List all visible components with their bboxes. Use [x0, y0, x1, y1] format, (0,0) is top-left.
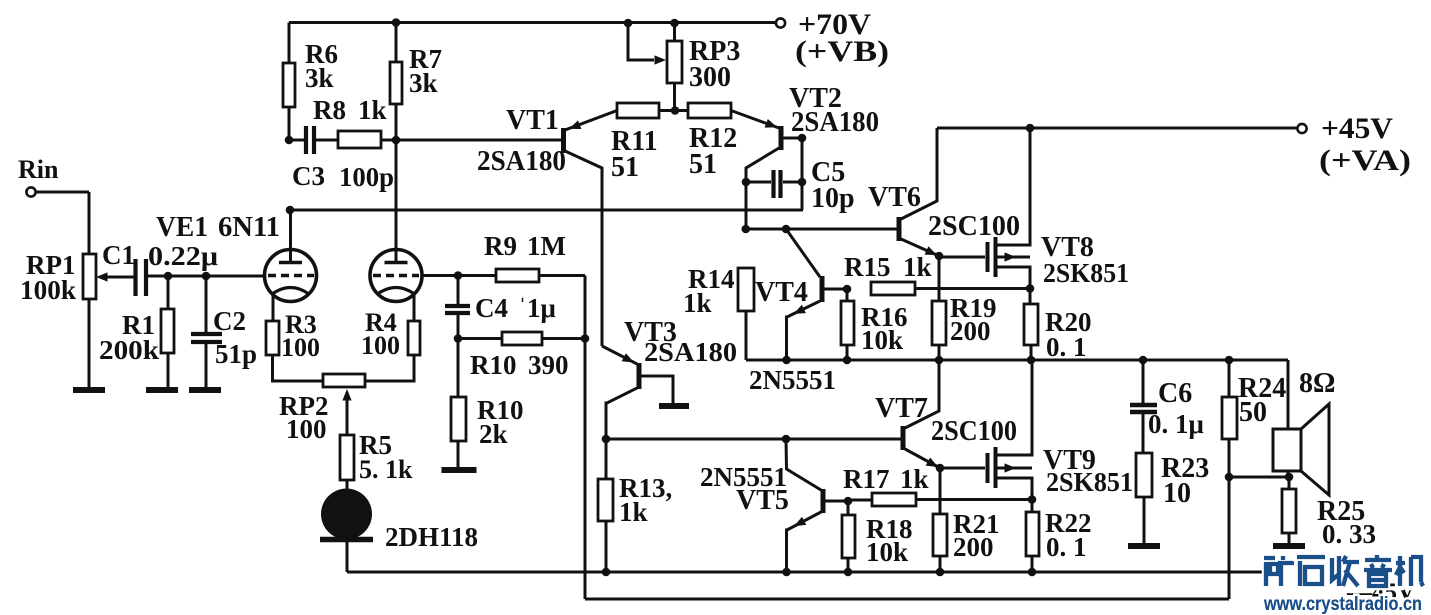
svg-text:2SA180: 2SA180 — [644, 337, 737, 367]
svg-text:3k: 3k — [409, 68, 438, 98]
svg-text:2DH118: 2DH118 — [385, 522, 478, 552]
transistor VT2 2SA180 — [731, 83, 879, 229]
node C5 right — [798, 178, 807, 187]
ground R10 2k — [442, 467, 477, 473]
resistor R20 0.1 — [1024, 289, 1092, 363]
resistor R23 10 — [1136, 453, 1209, 544]
wire VT1 base line — [396, 139, 561, 142]
svg-text:0.22μ: 0.22μ — [148, 241, 218, 271]
node VT2 collector to base-line junction — [742, 225, 751, 234]
node C3 left — [285, 136, 294, 145]
resistor R16 10k — [841, 289, 908, 360]
transistor VT5 2N5551 — [700, 439, 848, 572]
node C4 bottom — [454, 334, 463, 343]
resistor R25 0.33 — [1282, 477, 1376, 549]
triode VE1a (left half 6N11) — [265, 250, 317, 302]
svg-text:2SK851: 2SK851 — [1043, 258, 1129, 288]
svg-text:2SC100: 2SC100 — [931, 416, 1017, 447]
wire 2DH118 to negative rail — [346, 541, 349, 572]
capacitor C1 0.22u — [102, 240, 218, 296]
capacitor C2 51p — [191, 276, 257, 388]
svg-text:100: 100 — [281, 333, 320, 362]
resistor R3 100 — [266, 310, 320, 362]
wire feedback bottom rail — [585, 598, 1229, 601]
svg-text:100k: 100k — [20, 275, 76, 305]
triode VE1b (right half 6N11) — [370, 250, 422, 302]
wire feedback column from R9/R10 — [584, 276, 587, 600]
resistor R19 200 — [932, 256, 997, 360]
wire top rail +70V — [289, 21, 776, 24]
watermark logo text — [1264, 555, 1423, 586]
svg-text:(+VA): (+VA) — [1319, 144, 1411, 177]
transistor VT7 2SC100 — [875, 360, 1017, 468]
wire plate VE1a up — [289, 210, 292, 262]
svg-text:200k: 200k — [99, 335, 159, 365]
svg-text:VE1: VE1 — [156, 212, 208, 243]
wire RP1 to ground — [88, 299, 91, 388]
node VT5 emitter on negative rail — [782, 568, 791, 577]
svg-text:C4: C4 — [475, 293, 508, 323]
svg-text:100: 100 — [361, 331, 400, 360]
svg-text:1k: 1k — [619, 497, 648, 527]
node VT6 emitter — [935, 252, 944, 261]
svg-text:VT4: VT4 — [755, 277, 808, 308]
diode 2DH118 — [320, 489, 478, 553]
node R13 bottom on negative rail — [602, 568, 611, 577]
node R1 top — [164, 272, 173, 281]
wire cathode VE1b down — [413, 294, 416, 321]
node VT2 base lead — [798, 134, 807, 143]
mosfet VT9 2SK851 — [940, 360, 1133, 500]
node R24 top — [1225, 356, 1234, 365]
transistor VT3 2SA180 — [602, 317, 737, 439]
svg-text:51: 51 — [611, 152, 639, 183]
svg-text:1k: 1k — [358, 95, 387, 125]
transistor VT4 2N5551 — [749, 229, 847, 395]
svg-text:ˈ1μ: ˈ1μ — [518, 293, 556, 323]
svg-text:1M: 1M — [527, 231, 566, 261]
node R21 bottom on negative rail — [936, 568, 945, 577]
node VT8 drain on rail — [1026, 124, 1035, 133]
svg-text:51p: 51p — [215, 339, 257, 369]
svg-text:2SC100: 2SC100 — [928, 211, 1020, 242]
wire R24 to R25 node — [1229, 476, 1289, 479]
node VT5 collector tap — [782, 435, 791, 444]
node R25 top / speaker bottom — [1285, 473, 1294, 482]
capacitor C3 100p — [289, 126, 394, 192]
svg-text:(+VB): (+VB) — [795, 35, 889, 68]
capacitor C6 0.1u — [1130, 360, 1204, 453]
wire R5 to 2DH118 — [346, 480, 349, 492]
node R22 bottom on negative rail — [1028, 568, 1037, 577]
node RP3 wiper on rail — [624, 19, 633, 28]
svg-text:10p: 10p — [811, 183, 855, 214]
resistor R6 3k — [283, 23, 338, 141]
wire plate line to VT2 base — [290, 209, 803, 212]
svg-text:1k: 1k — [900, 464, 929, 494]
resistor R4 100 — [361, 308, 420, 360]
node VT7 emitter — [936, 464, 945, 473]
ground C2 — [189, 387, 221, 393]
resistor R9 1M — [484, 231, 585, 282]
svg-text:R8: R8 — [313, 95, 346, 125]
svg-text:2k: 2k — [479, 419, 508, 449]
mosfet VT8 2SK851 — [939, 128, 1129, 289]
svg-text:VT5: VT5 — [736, 485, 789, 516]
svg-text:R9: R9 — [484, 231, 517, 261]
svg-text:1k: 1k — [683, 288, 712, 318]
svg-text:100p: 100p — [339, 162, 394, 192]
resistor R18 10k — [842, 501, 913, 572]
wire cathode VE1a down — [272, 294, 275, 321]
svg-text:51: 51 — [689, 149, 717, 180]
wire +45V rail — [937, 127, 1297, 130]
resistor R12 51 — [675, 103, 737, 180]
svg-text:0. 33: 0. 33 — [1322, 519, 1376, 549]
wire R11 to RP3 node — [659, 109, 675, 112]
ground R25 — [1273, 543, 1305, 549]
svg-text:100: 100 — [286, 414, 327, 444]
svg-text:+45V: +45V — [1321, 112, 1393, 145]
svg-text:300: 300 — [689, 62, 731, 93]
potentiometer RP3 300 — [628, 23, 740, 111]
resistor R11 51 — [611, 103, 659, 183]
capacitor C5 10p — [746, 157, 855, 214]
node VT4 collector tap — [782, 225, 791, 234]
svg-text:8Ω: 8Ω — [1299, 368, 1335, 399]
resistor R1 200k — [99, 276, 174, 388]
svg-text:5. 1k: 5. 1k — [359, 455, 413, 484]
resistor R10 390 — [458, 332, 585, 380]
node R7 top — [392, 18, 401, 27]
ground VT3 base — [659, 403, 689, 409]
node R18 bottom on negative rail — [844, 568, 853, 577]
resistor R24 50 — [1222, 360, 1286, 477]
svg-text:C1: C1 — [102, 240, 135, 270]
svg-text:1k: 1k — [903, 252, 932, 282]
svg-text:VT6: VT6 — [868, 182, 921, 213]
wire upper base line to VT6 — [746, 228, 897, 231]
node VT4 base — [843, 285, 852, 294]
transistor VT6 2SC100 — [868, 128, 1020, 256]
svg-text:VT1: VT1 — [506, 105, 559, 136]
wire VE1b grid to feedback network — [422, 274, 496, 277]
svg-text:10k: 10k — [866, 537, 908, 567]
ground R23 — [1128, 543, 1160, 549]
svg-text:Rin: Rin — [18, 155, 59, 184]
node VT8 source — [1026, 284, 1035, 293]
svg-text:R17: R17 — [843, 464, 890, 494]
svg-text:200: 200 — [953, 532, 994, 562]
capacitor C4 1u — [445, 276, 556, 339]
node plate line left — [286, 206, 295, 215]
resistor R10 2k — [451, 339, 524, 469]
svg-text:2SA180: 2SA180 — [477, 146, 566, 177]
node C6 top — [1139, 356, 1148, 365]
wire R4 to RP2 — [365, 355, 414, 381]
watermark url text — [1263, 594, 1422, 615]
node VT4 emitter on output rail — [782, 356, 791, 365]
svg-text:0. 1: 0. 1 — [1046, 532, 1087, 562]
svg-text:0. 1: 0. 1 — [1046, 332, 1087, 362]
svg-text:0. 1μ: 0. 1μ — [1148, 409, 1204, 439]
svg-text:R10: R10 — [470, 350, 517, 380]
wire C1 to grid of VE1a — [148, 275, 264, 278]
svg-text:2SK851: 2SK851 — [1046, 467, 1133, 497]
potentiometer RP2 100 — [279, 374, 365, 444]
svg-text:3k: 3k — [305, 63, 334, 93]
resistor R22 0.1 — [1026, 500, 1092, 573]
svg-text:6N11: 6N11 — [218, 212, 280, 243]
node C5 left — [742, 178, 751, 187]
resistor R5 5.1k — [340, 430, 413, 484]
wire negative rail -45V — [347, 571, 1263, 574]
node R19 bottom on output rail — [935, 356, 944, 365]
terminal +70V — [776, 8, 889, 68]
node RP3 top on rail — [670, 19, 679, 28]
svg-text:10: 10 — [1163, 478, 1191, 509]
node R10 right on feedback column — [581, 334, 590, 343]
speaker 8 ohm — [1273, 360, 1335, 495]
wire lower drive line — [606, 438, 901, 441]
node RP3 bottom — [671, 106, 680, 115]
wire R3 to RP2 — [273, 355, 324, 381]
resistor R14 1k — [683, 264, 754, 360]
wire plate VE1b up — [395, 140, 398, 262]
svg-text:390: 390 — [528, 350, 569, 380]
svg-text:VT7: VT7 — [875, 393, 928, 424]
svg-text:200: 200 — [950, 316, 991, 346]
ground RP1 — [73, 387, 105, 393]
svg-text:10k: 10k — [861, 325, 903, 355]
node R8 right / R7 bottom — [392, 136, 401, 145]
input terminal Rin — [18, 155, 89, 197]
label VE1 6N11 — [156, 212, 280, 243]
resistor R15 1k — [844, 252, 1031, 295]
transistor VT1 2SA180 — [477, 105, 617, 346]
label -45V under watermark — [1346, 579, 1415, 606]
node grid junction — [454, 271, 463, 280]
resistor R8 1k — [313, 95, 396, 148]
wire output rail — [746, 359, 1288, 362]
svg-text:R15: R15 — [844, 252, 891, 282]
resistor R13 1k — [598, 439, 672, 572]
terminal +45V — [1297, 112, 1411, 177]
svg-text:C3: C3 — [292, 161, 325, 191]
node R24 bottom — [1225, 473, 1234, 482]
node C2 top — [202, 272, 211, 281]
node R16 bottom on output rail — [843, 356, 852, 365]
svg-text:C2: C2 — [213, 306, 246, 336]
node VT9 source — [1028, 495, 1037, 504]
resistor R17 1k — [843, 464, 1032, 506]
node VT3 collector / drive line — [602, 435, 611, 444]
svg-text:2N5551: 2N5551 — [749, 365, 836, 395]
resistor R7 3k — [390, 23, 442, 141]
svg-text:www.crystalradio.cn: www.crystalradio.cn — [1263, 594, 1422, 615]
ground R1 — [146, 387, 178, 393]
svg-text:50: 50 — [1239, 397, 1267, 428]
wire feedback to speaker node — [1228, 477, 1231, 599]
node R20 bottom on output rail — [1027, 356, 1036, 365]
wire Rin to RP1 — [88, 192, 91, 254]
svg-text:C6: C6 — [1158, 378, 1192, 409]
resistor R21 200 — [933, 468, 1000, 572]
potentiometer RP1 100k — [20, 250, 134, 305]
svg-text:2SA180: 2SA180 — [791, 107, 879, 138]
node VT5 base — [844, 497, 853, 506]
